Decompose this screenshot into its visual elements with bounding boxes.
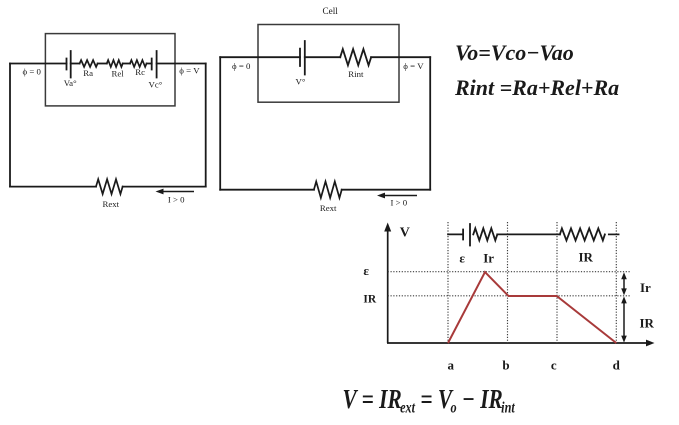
dashed level IR (horizontal dotted) — [388, 295, 631, 297]
svg-text:Rc: Rc — [135, 67, 145, 77]
double arrow IR (between IR level and baseline) — [621, 296, 627, 342]
wire: top-right lead (phi=V side, middle) — [371, 56, 430, 58]
double arrow Ir (between epsilon and IR levels) — [621, 272, 627, 295]
svg-text:Rint: Rint — [348, 69, 364, 79]
resistor Ir (internal) — [473, 228, 497, 240]
svg-text:Rint =Ra+Rel+Ra: Rint =Ra+Rel+Ra — [454, 75, 619, 100]
svg-text:Ir: Ir — [483, 251, 494, 266]
y-axis V — [384, 223, 391, 344]
svg-text:V: V — [400, 226, 410, 241]
battery Vc (cathode half-cell) — [152, 51, 157, 78]
resistor Rext (left circuit) — [96, 179, 123, 194]
svg-text:c: c — [551, 357, 557, 372]
box: electrolyte cell boundary (left circuit) — [45, 34, 175, 106]
resistor Rext (middle circuit) — [314, 182, 342, 198]
gridline a (vertical dotted) — [447, 222, 449, 343]
svg-text:Rel: Rel — [112, 69, 125, 79]
wire: battery V° to resistor Rint — [305, 56, 340, 58]
gridline b (vertical dotted) — [507, 222, 509, 343]
battery epsilon (emf source) — [463, 224, 470, 246]
svg-text:Ra: Ra — [83, 68, 93, 78]
wire: top-left lead (phi=0 side) — [10, 63, 67, 65]
equation V = IRext = Vo - IRint — [343, 385, 516, 417]
wire: Rc to battery Vc — [147, 63, 152, 65]
battery Va (anode half-cell) — [67, 51, 71, 78]
svg-text:IR: IR — [640, 316, 655, 331]
svg-text:IR: IR — [363, 294, 376, 306]
wire: IR to d — [609, 233, 619, 235]
wire: Rel to Rc — [123, 63, 130, 65]
wire: bottom-left segment to Rext — [10, 186, 96, 188]
svg-text:a: a — [448, 357, 455, 372]
wire: bottom-right segment — [123, 186, 206, 188]
svg-text:Va°: Va° — [64, 78, 77, 88]
wire: right vertical of outer loop — [205, 64, 207, 187]
wire: left vertical of outer loop (middle) — [219, 57, 221, 190]
wire: Ir to resistor IR — [497, 233, 560, 235]
svg-text:Ir: Ir — [640, 280, 651, 295]
resistor Rc — [130, 60, 147, 67]
dashed level epsilon (horizontal dotted) — [388, 271, 631, 273]
svg-text:Vc°: Vc° — [149, 80, 163, 90]
svg-text:I > 0: I > 0 — [391, 198, 408, 208]
x-axis — [387, 340, 655, 347]
svg-text:ϕ = 0: ϕ = 0 — [232, 61, 251, 71]
svg-text:ϕ = V: ϕ = V — [403, 61, 424, 71]
wire: bottom-left segment to Rext (middle) — [220, 189, 314, 191]
wire: left vertical of outer loop — [9, 64, 11, 187]
svg-text:Rext: Rext — [320, 203, 337, 213]
wire: bottom-right segment (middle) — [342, 189, 431, 191]
current arrow I>0 (middle circuit) — [377, 193, 417, 199]
curve V(x) red polyline — [448, 272, 616, 343]
gridline d (vertical dotted) — [615, 222, 617, 343]
wire: top-left lead (phi=0 side, middle) — [220, 56, 300, 58]
wire: right vertical of outer loop (middle) — [429, 57, 431, 190]
svg-text:I > 0: I > 0 — [168, 195, 185, 205]
svg-text:ϕ = V: ϕ = V — [179, 66, 200, 76]
svg-text:ε: ε — [363, 263, 369, 278]
current arrow I>0 (left circuit) — [156, 189, 195, 195]
svg-text:d: d — [613, 357, 621, 372]
svg-text:IR: IR — [579, 250, 594, 265]
svg-text:Vo=Vco−Vao: Vo=Vco−Vao — [455, 40, 574, 65]
box: cell boundary (middle circuit) — [258, 25, 399, 103]
svg-text:ϕ = 0: ϕ = 0 — [23, 67, 42, 77]
resistor Rint — [340, 49, 371, 65]
wire: top-right lead (phi=V side) — [157, 63, 206, 65]
resistor Rel — [107, 60, 123, 67]
wire: Ra to Rel — [98, 63, 107, 65]
svg-text:Rext: Rext — [103, 199, 120, 209]
svg-text:b: b — [502, 357, 509, 372]
svg-text:V°: V° — [296, 77, 306, 87]
svg-text:ε: ε — [459, 251, 465, 266]
resistor Ra — [80, 60, 98, 67]
svg-text:Cell: Cell — [323, 6, 339, 16]
gridline c (vertical dotted) — [556, 222, 558, 343]
battery V° — [300, 41, 305, 75]
resistor IR (external) — [560, 228, 605, 240]
wire: battery Va to resistor Ra — [71, 63, 80, 65]
wire: a to battery epsilon — [448, 233, 463, 235]
svg-text:V = IRext = Vo − IRint: V = IRext = Vo − IRint — [343, 385, 516, 417]
